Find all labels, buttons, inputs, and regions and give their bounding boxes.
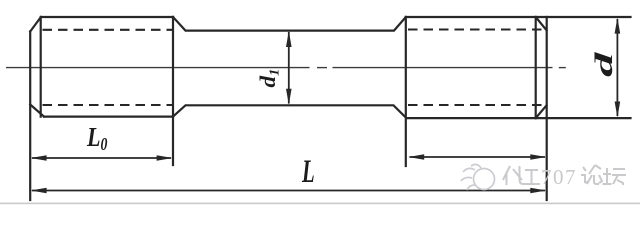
svg-text:d: d xyxy=(590,52,618,77)
svg-text:L: L xyxy=(301,153,314,189)
svg-text:707: 707 xyxy=(541,165,577,189)
